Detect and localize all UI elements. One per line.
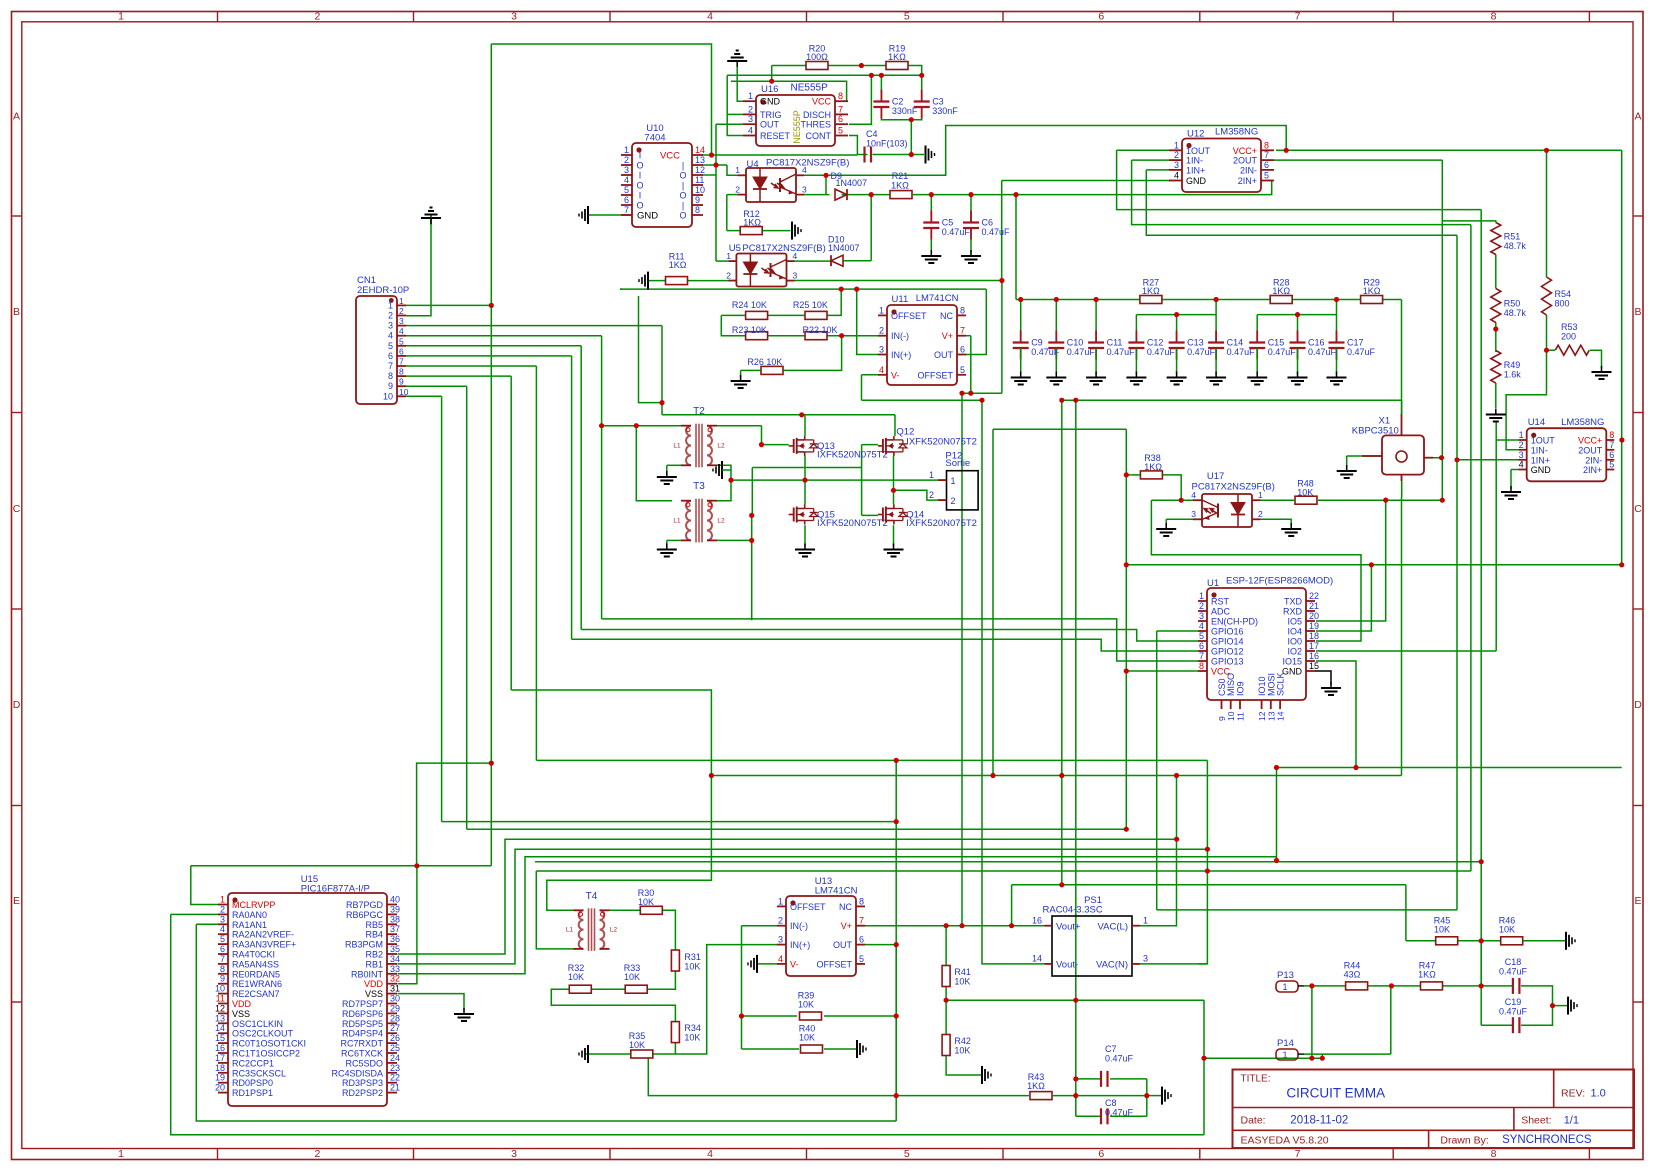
svg-text:I: I [639, 151, 642, 161]
svg-text:8: 8 [838, 91, 843, 101]
svg-text:R31: R31 [684, 952, 701, 962]
svg-text:RE0RDAN5: RE0RDAN5 [232, 969, 280, 979]
svg-text:V+: V+ [942, 331, 953, 341]
svg-text:U17: U17 [1207, 471, 1224, 482]
svg-text:RB7PGD: RB7PGD [346, 900, 384, 910]
svg-text:29: 29 [390, 1003, 400, 1013]
svg-text:TRIG: TRIG [760, 110, 782, 120]
svg-text:C14: C14 [1227, 338, 1244, 348]
svg-text:800: 800 [1555, 299, 1570, 309]
svg-text:VSS: VSS [232, 1009, 250, 1019]
svg-text:14: 14 [1032, 954, 1042, 964]
svg-text:8: 8 [859, 896, 864, 906]
svg-text:IN(+): IN(+) [790, 940, 810, 950]
svg-text:1IN+: 1IN+ [1186, 165, 1205, 175]
svg-text:0.47uF: 0.47uF [1105, 1054, 1134, 1064]
svg-text:1: 1 [1143, 915, 1148, 925]
svg-text:9: 9 [388, 381, 393, 391]
svg-text:6: 6 [399, 346, 404, 356]
svg-text:Sortie: Sortie [945, 458, 970, 469]
svg-text:3: 3 [399, 316, 404, 326]
svg-text:5: 5 [904, 1148, 910, 1160]
svg-text:RB2: RB2 [365, 950, 383, 960]
svg-text:1/1: 1/1 [1564, 1115, 1579, 1127]
svg-text:36: 36 [390, 934, 400, 944]
svg-text:RC1T1OSICCP2: RC1T1OSICCP2 [232, 1049, 300, 1059]
svg-text:6: 6 [838, 114, 843, 124]
svg-text:RD5PSP5: RD5PSP5 [342, 1019, 383, 1029]
svg-text:VDD: VDD [364, 979, 384, 989]
svg-text:20: 20 [1309, 611, 1319, 621]
svg-text:6: 6 [1264, 160, 1269, 170]
svg-text:B: B [13, 306, 20, 318]
svg-text:5: 5 [1264, 171, 1269, 181]
svg-text:ADC: ADC [1211, 607, 1231, 617]
svg-text:O: O [679, 211, 686, 221]
svg-text:RA4T0CKI: RA4T0CKI [232, 950, 275, 960]
svg-text:4: 4 [1199, 621, 1204, 631]
svg-text:39: 39 [390, 904, 400, 914]
svg-text:GPIO16: GPIO16 [1211, 627, 1244, 637]
svg-text:C13: C13 [1187, 338, 1204, 348]
svg-text:IN(+): IN(+) [891, 350, 911, 360]
svg-text:5: 5 [1199, 631, 1204, 641]
svg-text:6: 6 [960, 345, 965, 355]
svg-text:21: 21 [390, 1083, 400, 1093]
svg-text:2: 2 [388, 311, 393, 321]
svg-text:3: 3 [1191, 509, 1196, 519]
svg-text:11: 11 [695, 175, 704, 185]
svg-text:7: 7 [838, 104, 843, 114]
svg-text:IO2: IO2 [1287, 647, 1302, 657]
svg-text:34: 34 [390, 954, 400, 964]
svg-text:3: 3 [511, 1148, 517, 1160]
svg-text:U12: U12 [1187, 129, 1204, 140]
svg-text:IO5: IO5 [1287, 617, 1302, 627]
svg-text:4: 4 [707, 1148, 713, 1160]
svg-text:OFFSET: OFFSET [817, 959, 853, 969]
svg-text:Sheet:: Sheet: [1521, 1115, 1551, 1127]
svg-text:18: 18 [1309, 631, 1319, 641]
svg-text:1: 1 [220, 895, 225, 905]
svg-text:U4: U4 [747, 159, 759, 170]
svg-text:|: | [682, 201, 684, 211]
svg-text:10K: 10K [954, 1046, 970, 1056]
svg-text:VDD: VDD [232, 999, 252, 1009]
svg-text:RC2CCP1: RC2CCP1 [232, 1058, 274, 1068]
svg-text:GPIO13: GPIO13 [1211, 657, 1244, 667]
svg-text:GND: GND [637, 211, 658, 222]
svg-text:6: 6 [859, 935, 864, 945]
svg-text:200: 200 [1561, 332, 1576, 342]
svg-text:8: 8 [399, 367, 404, 377]
svg-text:37: 37 [390, 924, 400, 934]
svg-text:4: 4 [1174, 171, 1179, 181]
svg-text:C2: C2 [892, 97, 904, 107]
svg-text:3: 3 [1519, 450, 1524, 460]
svg-text:2018-11-02: 2018-11-02 [1290, 1115, 1348, 1127]
svg-text:0.47uF: 0.47uF [1499, 967, 1528, 977]
svg-text:VCC: VCC [660, 151, 680, 162]
svg-text:43Ω: 43Ω [1344, 970, 1361, 980]
svg-text:DISCH: DISCH [803, 110, 831, 120]
svg-text:IXFK520N075T2: IXFK520N075T2 [906, 518, 977, 529]
svg-text:8: 8 [1491, 11, 1497, 23]
svg-text:2: 2 [314, 1148, 320, 1160]
svg-text:RA0AN0: RA0AN0 [232, 910, 267, 920]
svg-text:Date:: Date: [1241, 1115, 1266, 1127]
svg-text:VCC+: VCC+ [1233, 146, 1257, 156]
svg-text:0.47uF: 0.47uF [1347, 347, 1376, 357]
svg-text:2: 2 [726, 270, 731, 280]
svg-text:P14: P14 [1277, 1038, 1294, 1049]
svg-text:1: 1 [735, 165, 740, 175]
svg-text:RC6TXCK: RC6TXCK [341, 1049, 383, 1059]
svg-text:9: 9 [220, 974, 225, 984]
svg-text:C8: C8 [1105, 1098, 1117, 1108]
svg-text:7: 7 [1264, 150, 1269, 160]
svg-text:1KΩ: 1KΩ [743, 218, 761, 228]
svg-text:C19: C19 [1505, 997, 1522, 1007]
svg-text:5: 5 [624, 185, 629, 195]
svg-text:2: 2 [1199, 601, 1204, 611]
svg-text:O: O [636, 161, 643, 171]
svg-text:19: 19 [215, 1073, 225, 1083]
svg-text:24: 24 [390, 1053, 400, 1063]
svg-text:L2: L2 [717, 518, 725, 525]
svg-text:ESP-12F(ESP8266MOD): ESP-12F(ESP8266MOD) [1226, 576, 1333, 587]
svg-text:R53: R53 [1561, 322, 1578, 332]
svg-text:10: 10 [215, 984, 225, 994]
svg-text:SYNCHRONECS: SYNCHRONECS [1502, 1134, 1592, 1146]
svg-text:10K: 10K [638, 897, 654, 907]
svg-text:GPIO12: GPIO12 [1211, 647, 1244, 657]
svg-text:4: 4 [879, 365, 884, 375]
svg-text:5: 5 [838, 126, 843, 136]
svg-text:6: 6 [1609, 450, 1614, 460]
svg-text:1N4007: 1N4007 [828, 243, 860, 253]
svg-text:R54: R54 [1555, 289, 1572, 299]
svg-text:10nF(103): 10nF(103) [866, 139, 908, 149]
svg-text:THRES: THRES [800, 120, 831, 130]
svg-text:6: 6 [1098, 11, 1104, 23]
svg-text:5: 5 [220, 934, 225, 944]
svg-text:OUT: OUT [934, 350, 954, 360]
svg-text:38: 38 [390, 914, 400, 924]
svg-text:GND: GND [1531, 465, 1552, 475]
svg-text:5: 5 [1609, 460, 1614, 470]
svg-text:C18: C18 [1505, 957, 1522, 967]
svg-text:10: 10 [399, 387, 409, 397]
svg-text:RC0T1OSOT1CKI: RC0T1OSOT1CKI [232, 1039, 306, 1049]
svg-text:VAC(L): VAC(L) [1098, 922, 1128, 933]
svg-text:L1: L1 [566, 927, 574, 934]
svg-text:RB0INT: RB0INT [351, 969, 384, 979]
svg-text:9: 9 [695, 195, 700, 205]
svg-text:RD0PSP0: RD0PSP0 [232, 1078, 273, 1088]
svg-text:2: 2 [879, 326, 884, 336]
svg-text:7: 7 [1199, 651, 1204, 661]
svg-text:U11: U11 [892, 294, 909, 305]
svg-text:C17: C17 [1347, 338, 1364, 348]
svg-text:IO0: IO0 [1287, 637, 1302, 647]
svg-text:3: 3 [220, 914, 225, 924]
svg-text:10K: 10K [954, 977, 970, 987]
svg-text:RB1: RB1 [365, 959, 383, 969]
svg-text:14: 14 [215, 1023, 225, 1033]
svg-text:V-: V- [790, 959, 799, 969]
svg-text:1: 1 [118, 1148, 124, 1160]
svg-text:Drawn By:: Drawn By: [1440, 1135, 1488, 1147]
svg-text:2: 2 [1258, 509, 1263, 519]
svg-text:8: 8 [1199, 661, 1204, 671]
svg-text:20: 20 [215, 1083, 225, 1093]
svg-text:2IN+: 2IN+ [1583, 465, 1602, 475]
svg-text:16: 16 [1309, 651, 1319, 661]
svg-text:I: I [639, 171, 642, 181]
svg-text:L1: L1 [673, 443, 681, 450]
svg-text:|: | [682, 181, 684, 191]
svg-text:7: 7 [388, 361, 393, 371]
svg-text:RXD: RXD [1283, 607, 1303, 617]
svg-text:1KΩ: 1KΩ [888, 52, 906, 62]
svg-text:IO15: IO15 [1282, 657, 1302, 667]
svg-text:1IN-: 1IN- [1186, 156, 1203, 166]
svg-text:2: 2 [735, 184, 740, 194]
svg-text:RB3PGM: RB3PGM [345, 940, 383, 950]
svg-text:T2: T2 [693, 406, 705, 417]
svg-text:LM741CN: LM741CN [815, 886, 858, 897]
svg-text:C5: C5 [942, 218, 954, 228]
svg-text:3: 3 [793, 270, 798, 280]
svg-text:C9: C9 [1031, 338, 1043, 348]
svg-text:TITLE:: TITLE: [1241, 1074, 1271, 1085]
svg-text:17: 17 [215, 1053, 225, 1063]
svg-text:13: 13 [695, 155, 705, 165]
svg-text:7: 7 [624, 205, 629, 215]
svg-text:6: 6 [388, 351, 393, 361]
svg-text:5: 5 [904, 11, 910, 23]
svg-text:33: 33 [390, 964, 400, 974]
svg-text:C6: C6 [982, 218, 994, 228]
svg-text:L2: L2 [717, 443, 725, 450]
svg-text:1: 1 [1519, 430, 1524, 440]
svg-text:9: 9 [399, 377, 404, 387]
svg-text:OUT: OUT [760, 120, 780, 130]
svg-text:7: 7 [960, 326, 965, 336]
svg-text:R50: R50 [1504, 299, 1521, 309]
svg-text:OFFSET: OFFSET [891, 311, 927, 321]
svg-text:8: 8 [388, 371, 393, 381]
svg-text:RESET: RESET [760, 131, 791, 141]
svg-text:2IN+: 2IN+ [1238, 176, 1257, 186]
svg-text:3: 3 [778, 935, 783, 945]
svg-text:R26 10K: R26 10K [747, 357, 782, 367]
svg-text:4: 4 [220, 924, 225, 934]
svg-text:40: 40 [390, 895, 400, 905]
svg-text:RD6PSP6: RD6PSP6 [342, 1009, 383, 1019]
svg-text:1: 1 [726, 251, 731, 261]
svg-text:RB5: RB5 [365, 920, 383, 930]
svg-text:2OUT: 2OUT [1578, 445, 1603, 455]
svg-text:IO9: IO9 [1236, 681, 1246, 696]
svg-text:7: 7 [399, 357, 404, 367]
svg-text:4: 4 [624, 175, 629, 185]
svg-text:25: 25 [390, 1043, 400, 1053]
svg-text:48.7k: 48.7k [1504, 308, 1527, 318]
svg-text:OFFSET: OFFSET [918, 370, 954, 380]
svg-text:RC3SCKSCL: RC3SCKSCL [232, 1068, 286, 1078]
svg-text:10K: 10K [684, 1033, 700, 1043]
svg-text:C16: C16 [1308, 338, 1325, 348]
svg-text:7: 7 [859, 916, 864, 926]
svg-text:C3: C3 [932, 97, 944, 107]
svg-text:NC: NC [940, 311, 953, 321]
svg-text:21: 21 [1309, 601, 1319, 611]
svg-text:CONT: CONT [806, 131, 832, 141]
svg-text:10K: 10K [684, 962, 700, 972]
svg-text:VCC: VCC [812, 97, 832, 107]
svg-text:C15: C15 [1268, 338, 1285, 348]
svg-text:28: 28 [390, 1013, 400, 1023]
svg-text:7: 7 [220, 954, 225, 964]
svg-text:3: 3 [624, 165, 629, 175]
svg-text:23: 23 [390, 1063, 400, 1073]
svg-text:3: 3 [511, 11, 517, 23]
svg-text:V+: V+ [841, 921, 852, 931]
svg-text:RC4SDISDA: RC4SDISDA [331, 1068, 383, 1078]
svg-text:L2: L2 [610, 927, 618, 934]
svg-text:O: O [636, 201, 643, 211]
svg-text:RB4: RB4 [365, 930, 383, 940]
svg-text:PIC16F877A-I/P: PIC16F877A-I/P [301, 884, 370, 895]
svg-text:VCC+: VCC+ [1578, 436, 1602, 446]
svg-text:31: 31 [390, 984, 400, 994]
svg-text:4: 4 [778, 954, 783, 964]
svg-text:O: O [679, 171, 686, 181]
svg-text:2: 2 [399, 306, 404, 316]
svg-text:D: D [1634, 699, 1642, 711]
svg-text:10: 10 [383, 391, 393, 401]
svg-text:3: 3 [1174, 160, 1179, 170]
svg-text:U1: U1 [1207, 578, 1219, 589]
svg-text:2: 2 [1519, 440, 1524, 450]
svg-text:LM358NG: LM358NG [1215, 127, 1258, 138]
svg-text:VAC(N): VAC(N) [1096, 960, 1128, 971]
svg-text:1: 1 [399, 296, 404, 306]
svg-text:30: 30 [390, 994, 400, 1004]
svg-text:7404: 7404 [644, 133, 665, 144]
svg-text:10K: 10K [1499, 925, 1515, 935]
svg-text:5: 5 [960, 365, 965, 375]
svg-text:1KΩ: 1KΩ [1272, 286, 1290, 296]
svg-text:Vout+: Vout+ [1056, 922, 1081, 933]
svg-text:8: 8 [1491, 1148, 1497, 1160]
svg-text:VSS: VSS [365, 989, 383, 999]
svg-text:0.47uF: 0.47uF [1499, 1007, 1528, 1017]
svg-text:C4: C4 [866, 129, 878, 139]
svg-text:4: 4 [748, 126, 753, 136]
svg-text:2: 2 [314, 11, 320, 23]
svg-text:IXFK520N075T2: IXFK520N075T2 [906, 436, 977, 447]
svg-text:22: 22 [1309, 591, 1319, 601]
svg-text:1: 1 [1199, 591, 1204, 601]
svg-text:1OUT: 1OUT [1531, 436, 1556, 446]
svg-text:12: 12 [695, 165, 705, 175]
svg-text:14: 14 [695, 145, 705, 155]
svg-text:6: 6 [1199, 641, 1204, 651]
svg-text:1.0: 1.0 [1591, 1088, 1606, 1100]
svg-text:8: 8 [220, 964, 225, 974]
svg-text:1: 1 [929, 470, 934, 480]
svg-text:11: 11 [216, 994, 225, 1004]
svg-text:IO4: IO4 [1287, 627, 1302, 637]
svg-text:18: 18 [215, 1063, 225, 1073]
svg-text:2EHDR-10P: 2EHDR-10P [357, 285, 409, 296]
svg-text:3: 3 [802, 184, 807, 194]
svg-text:8: 8 [1609, 430, 1614, 440]
svg-text:4: 4 [802, 165, 807, 175]
svg-text:1: 1 [1282, 982, 1287, 992]
svg-text:2: 2 [748, 104, 753, 114]
svg-text:LM358NG: LM358NG [1561, 417, 1604, 428]
svg-text:R41: R41 [954, 967, 971, 977]
svg-text:RA5AN4SS: RA5AN4SS [232, 959, 279, 969]
svg-text:1: 1 [118, 11, 124, 23]
svg-text:3: 3 [879, 345, 884, 355]
svg-text:32: 32 [390, 974, 400, 984]
svg-text:10K: 10K [1297, 488, 1313, 498]
svg-text:3: 3 [1199, 611, 1204, 621]
svg-text:GPIO14: GPIO14 [1211, 637, 1244, 647]
svg-text:RD4PSP4: RD4PSP4 [342, 1029, 383, 1039]
svg-text:10K: 10K [1434, 925, 1450, 935]
svg-text:16: 16 [1032, 915, 1042, 925]
svg-text:10K: 10K [799, 1033, 815, 1043]
svg-text:1: 1 [879, 305, 884, 315]
svg-text:RA2AN2VREF-: RA2AN2VREF- [232, 930, 294, 940]
svg-text:2: 2 [929, 490, 934, 500]
svg-text:KBPC3510: KBPC3510 [1352, 426, 1399, 437]
svg-text:RC5SDO: RC5SDO [345, 1058, 383, 1068]
svg-text:3: 3 [388, 321, 393, 331]
svg-text:2: 2 [220, 904, 225, 914]
svg-text:10K: 10K [629, 1040, 645, 1050]
svg-text:5: 5 [859, 954, 864, 964]
svg-text:RA1AN1: RA1AN1 [232, 920, 267, 930]
svg-text:RD7PSP7: RD7PSP7 [342, 999, 383, 1009]
svg-text:2: 2 [624, 155, 629, 165]
svg-text:1: 1 [778, 896, 783, 906]
svg-text:RD2PSP2: RD2PSP2 [342, 1088, 383, 1098]
svg-text:REV:: REV: [1561, 1088, 1585, 1100]
svg-text:4: 4 [707, 11, 713, 23]
svg-text:R22 10K: R22 10K [803, 325, 838, 335]
svg-text:O: O [636, 181, 643, 191]
svg-text:E: E [1634, 895, 1641, 907]
svg-text:C10: C10 [1067, 338, 1084, 348]
svg-text:1KΩ: 1KΩ [1027, 1081, 1045, 1091]
svg-text:OFFSET: OFFSET [790, 902, 826, 912]
svg-text:RC7RXDT: RC7RXDT [340, 1039, 383, 1049]
svg-text:1: 1 [624, 145, 629, 155]
svg-text:5: 5 [399, 336, 404, 346]
svg-text:C12: C12 [1147, 338, 1164, 348]
svg-text:IXFK520N075T2: IXFK520N075T2 [817, 450, 888, 461]
svg-text:R23 10K: R23 10K [732, 325, 767, 335]
svg-text:1KΩ: 1KΩ [1142, 286, 1160, 296]
svg-text:A: A [1634, 111, 1641, 123]
